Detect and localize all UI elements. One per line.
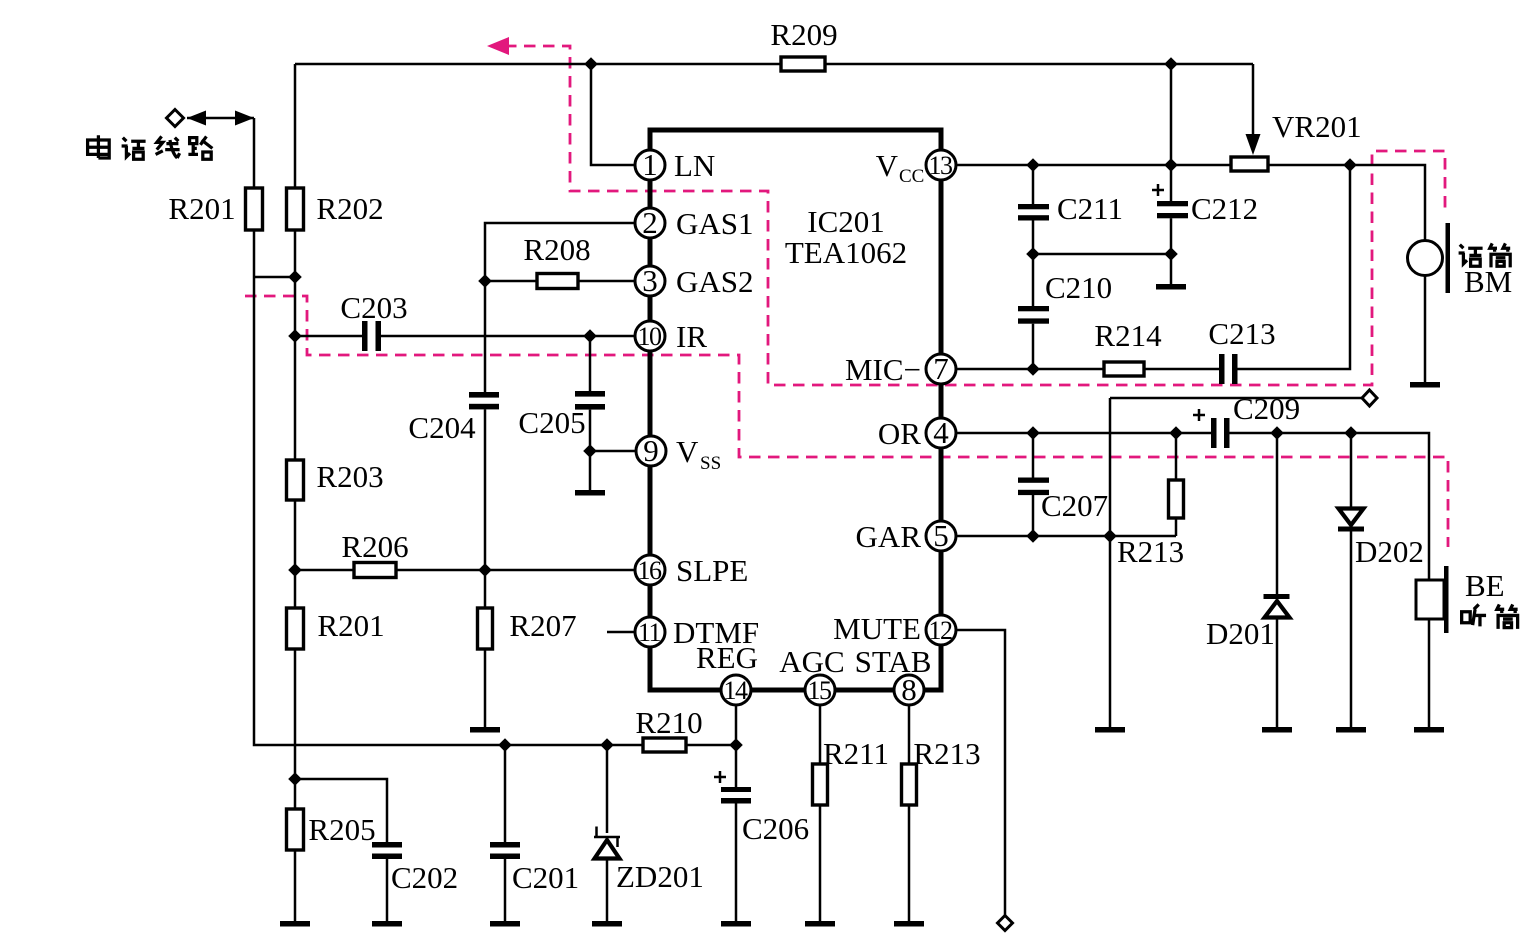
svg-text:MUTE: MUTE: [833, 611, 921, 646]
node: telephone line terminal diamond: [167, 110, 184, 127]
wire C209 to BE corner: [1230, 433, 1430, 580]
junction GAR at tall column: [1103, 529, 1117, 543]
svg-text:C209: C209: [1233, 391, 1300, 426]
wire C205 bottom to ground: [589, 410, 592, 490]
capacitor C209 electrolytic: [1193, 391, 1300, 448]
wire R213 to ground: [908, 805, 911, 921]
svg-text:C202: C202: [391, 860, 458, 895]
svg-text:R208: R208: [523, 232, 590, 267]
pin 16 SLPE: [635, 553, 748, 588]
wire C201 to ground: [504, 859, 507, 921]
svg-text:C213: C213: [1208, 316, 1275, 351]
svg-text:BE: BE: [1465, 568, 1505, 603]
junction GAR at C207: [1026, 529, 1040, 543]
junction SLPE rail left: [288, 563, 302, 577]
resistor R208: [537, 274, 578, 289]
svg-text:1: 1: [642, 147, 658, 182]
ground C202: [372, 921, 402, 927]
svg-text:R201: R201: [168, 191, 235, 226]
node: mute terminal diamond: [998, 916, 1013, 931]
svg-text:V: V: [676, 434, 699, 469]
wire pin 14 down through C206: [735, 705, 738, 787]
svg-text:14: 14: [724, 676, 749, 705]
capacitor C210: [1018, 254, 1112, 369]
junction rail at C206/pin14: [729, 738, 743, 752]
svg-text:12: 12: [929, 616, 953, 645]
svg-text:D202: D202: [1355, 534, 1424, 569]
junction Vcc at C213 riser: [1343, 158, 1357, 172]
earpiece BE: [1416, 566, 1505, 633]
pin 3 GAS2: [635, 263, 754, 299]
wire from top junction down to Vcc rail: [1170, 64, 1173, 165]
svg-text:IC201: IC201: [807, 204, 885, 239]
zener diode ZD201: [594, 827, 704, 895]
svg-text:SLPE: SLPE: [676, 553, 748, 588]
pink arrowhead: [487, 37, 509, 55]
svg-text:IR: IR: [676, 319, 707, 354]
junction at R202 column y277: [288, 270, 302, 284]
junction C211/C212 link right: [1164, 247, 1178, 261]
ground R211: [805, 921, 835, 927]
pin 1 LN: [635, 147, 715, 183]
zener diode D201: [1206, 433, 1290, 727]
capacitor C212 electrolytic: [1152, 165, 1258, 284]
ground D201: [1262, 727, 1292, 733]
stub at pin 11 DTMF: [607, 631, 635, 634]
pin 8 STAB: [855, 644, 932, 707]
pink dashed receive path to BE earpiece: [245, 296, 1448, 547]
wire C205 column from IR row: [589, 336, 592, 391]
pin 10 IR: [635, 319, 707, 354]
svg-text:C206: C206: [742, 811, 809, 846]
svg-text:16: 16: [638, 556, 663, 585]
pin 7 MIC-: [845, 351, 956, 387]
wire C204 column upper: [484, 281, 487, 392]
svg-text:VR201: VR201: [1272, 109, 1362, 144]
svg-text:R206: R206: [341, 529, 408, 564]
wire pin 15 down to R211: [819, 705, 822, 764]
pin 11 DTMF: [635, 615, 759, 650]
svg-text:STAB: STAB: [855, 644, 932, 679]
resistor R207: [478, 608, 493, 649]
junction OR at C207: [1026, 426, 1040, 440]
svg-text:D201: D201: [1206, 616, 1275, 651]
diode D202: [1338, 433, 1424, 727]
wire VR201 to BM corner: [1268, 165, 1425, 240]
junction OR at D201: [1270, 426, 1284, 440]
junction top rail at C212 column: [1164, 57, 1178, 71]
svg-text:C204: C204: [408, 410, 476, 445]
ground BM: [1410, 382, 1440, 388]
junction C205 top at IR row: [583, 329, 597, 343]
arrow onto VR201: [1246, 134, 1261, 155]
svg-text:3: 3: [642, 263, 658, 298]
wire C213 up to Vcc rail: [1238, 165, 1351, 369]
resistor R203: [287, 460, 304, 500]
wire BM to ground: [1424, 276, 1427, 382]
resistor R214: [1104, 362, 1144, 376]
svg-text:R213: R213: [1117, 534, 1184, 569]
capacitor C201: [490, 842, 579, 895]
pin 13 VCC: [876, 148, 956, 187]
junction bottom rail at C201: [498, 738, 512, 752]
svg-text:11: 11: [638, 618, 661, 647]
resistor R213 lower: [902, 764, 917, 805]
svg-text:OR: OR: [878, 416, 921, 451]
svg-text:4: 4: [933, 415, 949, 450]
wire ZD201 to ground: [606, 860, 609, 921]
wire Vcc row pin13 to VR201: [956, 164, 1231, 167]
wire tie R201 column to R202 column: [254, 276, 295, 279]
ground ZD201: [592, 921, 622, 927]
label 话筒 (microphone): [1459, 243, 1511, 267]
label 电话线路 (telephone line): [88, 135, 213, 159]
wire R201b bottom to R205: [294, 649, 297, 809]
svg-text:R203: R203: [316, 459, 383, 494]
resistor R213 upper: [1117, 433, 1184, 569]
svg-text:GAS2: GAS2: [676, 264, 754, 299]
junction C211/C212 link left: [1026, 247, 1040, 261]
wire MUTE from pin 12: [956, 630, 1005, 916]
wire C202 to ground: [386, 859, 389, 921]
svg-text:LN: LN: [674, 148, 715, 183]
junction R208 left: [478, 274, 492, 288]
svg-text:C210: C210: [1045, 270, 1112, 305]
pink dashed transmit path from BM mic to line: [505, 46, 1445, 385]
svg-text:R201: R201: [317, 608, 384, 643]
resistor R202: [287, 188, 304, 230]
ground R207: [470, 727, 500, 733]
wire ZD201 column: [606, 745, 609, 833]
ground D202: [1336, 727, 1366, 733]
pin 2 GAS1: [635, 205, 754, 241]
svg-text:MIC−: MIC−: [845, 352, 921, 387]
wire C203 to pin 10 IR: [381, 335, 635, 338]
capacitor C205: [518, 391, 605, 440]
svg-text:SS: SS: [700, 453, 721, 474]
svg-text:V: V: [876, 148, 899, 183]
svg-text:C212: C212: [1191, 191, 1258, 226]
wire MIC- row pin 7 to R214: [956, 368, 1104, 371]
capacitor C206 electrolytic: [714, 771, 809, 846]
svg-text:2: 2: [642, 205, 658, 240]
wire R208 left lead: [485, 280, 537, 283]
wire GAS1 from pin 2 with corner down: [485, 223, 635, 281]
svg-text:GAR: GAR: [856, 519, 922, 554]
ground BE: [1414, 727, 1444, 733]
svg-text:BM: BM: [1464, 264, 1512, 299]
wire corner down to VR201 arrow: [1252, 64, 1255, 138]
svg-text:C205: C205: [518, 405, 585, 440]
resistor R210: [643, 738, 686, 752]
wire from top rail down to pin 1 LN: [591, 64, 635, 165]
resistor R206: [354, 563, 396, 578]
svg-text:CC: CC: [899, 166, 924, 187]
svg-text:5: 5: [933, 518, 949, 553]
wire top rail right of R209: [825, 63, 1253, 66]
wire R206 to pin 16 SLPE: [396, 569, 635, 572]
resistor R201 lower: [287, 608, 304, 649]
capacitor C211: [1018, 165, 1123, 254]
pin 12 MUTE: [833, 611, 956, 646]
wire link C211 to C212: [1033, 253, 1171, 256]
wire telephone line down to R201: [253, 118, 256, 188]
svg-text:R213: R213: [913, 736, 980, 771]
resistor R209: [781, 57, 825, 71]
capacitor C203: [340, 290, 407, 351]
wire R207 to ground: [484, 649, 487, 727]
junction C202 branch: [288, 772, 302, 786]
wire BE to ground: [1428, 619, 1431, 727]
svg-text:10: 10: [638, 322, 663, 351]
wire R202 bottom to R203 top: [294, 230, 297, 460]
ground tall column: [1095, 727, 1125, 733]
wire C204 down through SLPE to R207: [484, 409, 487, 608]
junction Vcc at C212: [1164, 158, 1178, 172]
ground C201: [490, 921, 520, 927]
wire tall column to ground: [1109, 398, 1112, 727]
capacitor C213: [1208, 316, 1275, 384]
svg-text:C203: C203: [340, 290, 407, 325]
pin 4 OR: [878, 415, 956, 451]
pin 9 VSS: [636, 433, 721, 474]
capacitor C202: [372, 842, 458, 895]
IC201 body: [650, 130, 941, 690]
label 听筒 (earpiece): [1462, 604, 1518, 628]
svg-text:REG: REG: [696, 640, 758, 675]
resistor R205: [287, 809, 304, 850]
wire R205 bottom to ground: [294, 850, 297, 921]
wire rail right of R210: [686, 744, 736, 747]
junction IR line at R202 column: [288, 329, 302, 343]
junction bottom rail at ZD201: [600, 738, 614, 752]
microphone BM: [1408, 223, 1513, 299]
wire C206 to ground: [735, 803, 738, 921]
junction top rail at LN drop: [584, 57, 598, 71]
ground R213: [894, 921, 924, 927]
capacitor C207: [1018, 433, 1108, 536]
wire OR row pin 4 to C209: [956, 432, 1211, 435]
wire from tall column to line diamond: [1110, 397, 1362, 400]
svg-text:15: 15: [808, 676, 832, 705]
node: output diamond: [1362, 390, 1377, 406]
svg-text:R209: R209: [770, 17, 837, 52]
wire R211 to ground: [819, 805, 822, 921]
ground C206: [721, 921, 751, 927]
svg-text:R205: R205: [308, 812, 375, 847]
junction VSS row: [583, 444, 597, 458]
svg-text:13: 13: [929, 151, 953, 180]
junction OR at R213 upper: [1169, 426, 1183, 440]
wire C201 column: [504, 745, 507, 842]
ground C212: [1156, 284, 1186, 290]
capacitor C204: [408, 392, 499, 445]
wire IR row from R202 column to C203: [295, 335, 362, 338]
svg-text:C211: C211: [1057, 191, 1123, 226]
svg-text:TEA1062: TEA1062: [785, 235, 907, 270]
wire pin 8 down to R213: [908, 705, 911, 764]
wire R201 bottom long run to bottom rail: [254, 230, 643, 745]
svg-text:R207: R207: [509, 608, 576, 643]
wire GAR row pin 5 to R213: [956, 535, 1176, 538]
svg-text:R211: R211: [823, 736, 889, 771]
resistor R201: [246, 188, 263, 230]
pin 14 REG: [696, 640, 758, 705]
junction Vcc at C211: [1026, 158, 1040, 172]
wire C202 branch: [295, 779, 387, 842]
bidirectional arrow on telephone line: [187, 111, 254, 126]
potentiometer VR201: [1231, 157, 1268, 171]
svg-text:7: 7: [933, 351, 949, 386]
wire R208 right lead to pin 3 GAS2: [578, 280, 635, 283]
junction SLPE at C204 column: [478, 563, 492, 577]
wire SLPE row from R202 column to R206: [295, 569, 354, 572]
resistor R211: [813, 764, 828, 805]
svg-text:AGC: AGC: [779, 644, 844, 679]
svg-text:R202: R202: [316, 191, 383, 226]
svg-text:R210: R210: [635, 705, 702, 740]
svg-text:R214: R214: [1094, 318, 1162, 353]
junction MIC row at C210: [1026, 362, 1040, 376]
pin 5 GAR: [856, 518, 956, 554]
wire R202 top to rail: [294, 64, 297, 188]
pin 15 AGC: [779, 644, 844, 705]
ground C205: [575, 490, 605, 496]
wire VSS row to pin 9: [590, 450, 636, 453]
wire R214 to C213: [1144, 368, 1219, 371]
svg-text:C201: C201: [512, 860, 579, 895]
wire R203 bottom to R201b: [294, 500, 297, 608]
ground R205: [280, 921, 310, 927]
wire top rail left of R209: [295, 63, 781, 66]
svg-text:9: 9: [643, 433, 659, 468]
svg-text:GAS1: GAS1: [676, 206, 754, 241]
svg-text:ZD201: ZD201: [616, 859, 704, 894]
junction OR at D202: [1344, 426, 1358, 440]
svg-text:C207: C207: [1041, 488, 1108, 523]
